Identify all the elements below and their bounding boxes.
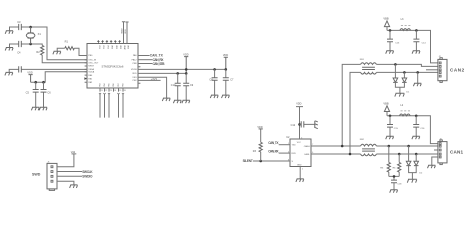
svg-text:R6: R6 — [393, 167, 397, 169]
wire CAN_STB — [138, 63, 152, 65]
mcu top pin names (rotated) — [98, 45, 129, 50]
svg-text:PA0: PA0 — [88, 74, 93, 77]
capacitor C14 — [415, 30, 417, 50]
svg-text:22: 22 — [105, 90, 107, 92]
svg-text:L2: L2 — [400, 104, 403, 107]
ground — [407, 179, 417, 182]
wire SWCLK — [57, 171, 82, 173]
svg-text:+3V3: +3V3 — [151, 77, 158, 81]
node — [394, 63, 397, 66]
capacitor C16 — [415, 116, 417, 136]
resistor R6 — [398, 154, 400, 176]
ground — [386, 136, 394, 139]
resistor R3 — [260, 129, 262, 161]
svg-text:26: 26 — [124, 90, 126, 92]
mcu bottom pin numbers — [101, 90, 126, 92]
node — [403, 71, 406, 74]
node — [389, 115, 392, 118]
svg-text:21: 21 — [101, 90, 103, 92]
svg-text:VDDA: VDDA — [88, 71, 94, 74]
node — [407, 145, 410, 148]
capacitor C5 — [35, 82, 37, 107]
wire SWDIO — [57, 175, 82, 177]
svg-text:PB5: PB5 — [109, 83, 111, 86]
svg-text:VSS: VSS — [132, 77, 137, 79]
svg-text:VSS: VSS — [106, 45, 108, 49]
svg-text:CAN1: CAN1 — [450, 150, 463, 155]
svg-text:PB0: PB0 — [88, 55, 93, 57]
ground (rotated) — [315, 121, 318, 129]
node OSC_IN junction — [29, 26, 32, 29]
capacitor C12 — [300, 123, 315, 125]
svg-text:NRST: NRST — [88, 66, 94, 68]
capacitor C3 — [19, 24, 22, 30]
resistor R2 — [41, 45, 44, 55]
svg-text:PB4: PB4 — [104, 83, 106, 86]
ground — [395, 93, 405, 96]
node — [185, 72, 188, 75]
svg-text:C14: C14 — [422, 42, 427, 44]
tvs diode D2a — [408, 146, 410, 161]
svg-text:VSS: VSS — [98, 45, 100, 49]
ground — [222, 95, 230, 98]
svg-text:R5: R5 — [380, 167, 384, 169]
wire D2 join — [409, 166, 417, 180]
svg-text:C5: C5 — [26, 91, 30, 95]
svg-text:VDD: VDD — [257, 126, 262, 129]
svg-text:VBB: VBB — [383, 16, 388, 20]
svg-text:C10: C10 — [171, 84, 176, 87]
svg-text:2: 2 — [302, 169, 303, 171]
svg-text:X1: X1 — [38, 32, 42, 36]
wire VBAT up — [122, 22, 125, 44]
ground — [53, 51, 61, 54]
capacitor C10 — [177, 73, 179, 100]
svg-text:VDD: VDD — [27, 71, 32, 74]
inductor L2 — [399, 114, 410, 116]
choke FB2 — [361, 144, 377, 155]
svg-text:PB6: PB6 — [113, 83, 115, 86]
wire CAN1 pin3 stub — [434, 149, 438, 151]
wire R1 left to ground — [57, 48, 65, 51]
ground — [296, 179, 304, 182]
ground — [390, 190, 398, 193]
ground — [412, 51, 420, 54]
svg-text:C7: C7 — [230, 78, 234, 81]
wire CANL — [311, 153, 438, 155]
connector J1 pins — [51, 166, 53, 182]
wire PB4 down — [104, 95, 106, 118]
svg-text:VBAT: VBAT — [121, 28, 124, 34]
node — [259, 160, 262, 163]
svg-text:PB2: PB2 — [133, 80, 138, 82]
node — [393, 175, 396, 178]
svg-text:D1: D1 — [406, 92, 410, 94]
wire SWD gnd — [57, 181, 74, 185]
tvs diode D1a — [394, 64, 396, 78]
svg-text:CAN_TX: CAN_TX — [268, 141, 279, 145]
mcu bottom pin stubs — [100, 88, 123, 92]
svg-text:3: 3 — [301, 137, 302, 139]
svg-text:PA12: PA12 — [132, 58, 138, 61]
wire termination join — [389, 176, 399, 180]
node — [42, 81, 45, 84]
svg-text:CAN_TX: CAN_TX — [150, 54, 164, 58]
wire PB5 down — [108, 95, 110, 118]
wire U2 GND — [299, 167, 301, 179]
svg-text:VBB: VBB — [383, 101, 388, 105]
svg-text:SWDIO: SWDIO — [82, 175, 93, 179]
capacitor C15 — [389, 116, 391, 136]
svg-text:U2: U2 — [286, 136, 290, 139]
wire RXD — [279, 152, 290, 154]
mcu left pin stubs — [85, 56, 87, 83]
svg-text:D2: D2 — [419, 173, 423, 175]
wire CANH — [311, 145, 438, 147]
mcu top power pin symbols — [97, 40, 121, 43]
mcu right pin names — [131, 54, 138, 82]
node — [341, 145, 344, 148]
wire +3V3 — [138, 79, 161, 81]
wire VDDA — [9, 69, 87, 72]
wire U2 VCC up — [296, 107, 303, 139]
capacitor C1 — [19, 66, 22, 72]
wire PB3 down — [99, 95, 101, 118]
wire CAN2 pin3 stub — [426, 69, 438, 71]
capacitor C9 — [185, 73, 187, 100]
resistor R1 — [65, 47, 74, 50]
svg-text:25: 25 — [119, 90, 121, 92]
svg-text:C12: C12 — [291, 124, 296, 127]
wire CAN_RX — [138, 59, 152, 61]
svg-text:SILENT: SILENT — [243, 159, 253, 163]
wire TXD — [279, 144, 290, 146]
capacitor C4 — [19, 41, 22, 47]
ground — [412, 136, 420, 139]
node — [185, 68, 188, 71]
svg-text:TXD: TXD — [292, 145, 297, 147]
connector J2 — [438, 59, 447, 80]
crystal X1 — [26, 27, 35, 44]
inductor L3 — [400, 29, 411, 31]
svg-text:R1: R1 — [65, 39, 69, 43]
svg-text:Vdd: Vdd — [71, 151, 76, 154]
svg-text:RXD: RXD — [292, 153, 297, 155]
svg-text:VSS: VSS — [102, 45, 104, 49]
node — [213, 68, 216, 71]
connector J2 tabs — [440, 58, 442, 60]
svg-text:C3: C3 — [17, 20, 21, 24]
ground — [413, 83, 421, 86]
svg-text:VBAT: VBAT — [123, 45, 126, 50]
svg-text:CAN2: CAN2 — [450, 68, 465, 73]
wire S pin — [253, 160, 290, 162]
wire OSC row2 — [10, 44, 88, 63]
wire R1 right to MCU BOOT0 — [74, 48, 87, 55]
node — [415, 115, 418, 118]
svg-text:VDD: VDD — [223, 54, 228, 57]
ground — [31, 107, 39, 110]
svg-text:CANH: CANH — [304, 145, 310, 148]
svg-text:OSC_OUT: OSC_OUT — [88, 63, 99, 65]
svg-text:PB8: PB8 — [133, 63, 138, 65]
svg-text:VDD: VDD — [119, 45, 121, 49]
svg-text:PB7: PB7 — [118, 83, 120, 86]
svg-text:VDD: VDD — [111, 45, 113, 49]
svg-text:CAN_STB: CAN_STB — [153, 62, 166, 66]
svg-text:VCC: VCC — [297, 142, 302, 144]
power VDD — [259, 128, 263, 130]
wire D1 join — [395, 82, 404, 93]
wire VDDIO up — [125, 22, 128, 44]
ground — [162, 98, 170, 101]
svg-text:PA9: PA9 — [133, 54, 138, 57]
node — [415, 29, 418, 32]
svg-text:VDD: VDD — [132, 73, 137, 75]
node — [34, 81, 37, 84]
ground — [5, 72, 13, 75]
resistor R5 — [388, 146, 390, 176]
ground — [39, 107, 47, 110]
svg-text:C6: C6 — [47, 91, 51, 95]
svg-text:S: S — [292, 161, 294, 163]
node — [176, 72, 179, 75]
svg-text:C4: C4 — [17, 51, 21, 55]
power VDD — [224, 57, 228, 69]
connector J3 — [438, 142, 447, 163]
svg-text:FB2: FB2 — [360, 139, 365, 141]
mcu right pin stubs — [138, 67, 140, 83]
wire PB9 down — [122, 95, 124, 118]
connector J1 — [47, 163, 57, 189]
node OSC_OUT junction — [29, 43, 32, 46]
capacitor C18 — [391, 180, 397, 183]
node — [298, 123, 301, 126]
wire PB7 down — [118, 95, 120, 118]
node — [389, 29, 392, 32]
capacitor C8 — [214, 69, 216, 95]
mcu U1 body — [87, 44, 138, 89]
power VDD — [184, 57, 188, 74]
svg-text:23: 23 — [110, 90, 112, 92]
u2 pin names — [292, 145, 297, 163]
transceiver U2 body — [290, 139, 311, 167]
node — [225, 68, 228, 71]
svg-text:CANL: CANL — [304, 153, 310, 156]
wire VBB rail — [387, 27, 438, 63]
wire VDD rail1 — [138, 68, 226, 70]
svg-text:STM32F042C6x6: STM32F042C6x6 — [102, 65, 124, 69]
node — [388, 145, 391, 148]
svg-text:VDD: VDD — [127, 45, 129, 49]
choke FB1 — [361, 63, 377, 74]
node — [415, 153, 418, 156]
capacitor C6 — [43, 82, 45, 107]
svg-text:24: 24 — [114, 90, 116, 92]
wire CANH riser to CAN2 — [342, 64, 360, 146]
svg-text:C9: C9 — [190, 84, 194, 87]
mcu left pin names — [88, 55, 99, 84]
svg-text:R3: R3 — [253, 150, 257, 153]
wire CANH to CAN2 conn — [377, 64, 438, 66]
svg-text:SWD: SWD — [32, 172, 41, 176]
ground — [173, 100, 181, 103]
svg-text:R2: R2 — [36, 50, 40, 54]
wire SWD Vdd — [57, 154, 76, 167]
ground — [70, 185, 78, 188]
capacitor C13 — [389, 30, 391, 50]
node — [416, 71, 419, 74]
svg-text:PA1: PA1 — [88, 77, 93, 80]
svg-text:OSC_IN: OSC_IN — [88, 59, 96, 61]
svg-text:C16: C16 — [420, 128, 425, 130]
svg-text:C13: C13 — [395, 42, 400, 44]
connector J1 bottom tab — [49, 189, 54, 191]
svg-text:C18: C18 — [397, 183, 402, 185]
mcu bottom net arrows — [99, 93, 124, 95]
wire CAN1 pin5 gnd — [432, 157, 438, 165]
tvs diode D1b — [403, 72, 405, 78]
wire VSS to ground — [138, 77, 167, 98]
capacitor C7 — [225, 69, 227, 95]
wire VDD bus — [31, 72, 87, 82]
svg-text:GND: GND — [297, 164, 302, 166]
svg-text:CAN_RX: CAN_RX — [268, 150, 279, 154]
svg-text:SWCLK: SWCLK — [82, 170, 93, 174]
wire OSC row1 — [10, 27, 88, 60]
svg-text:VDD: VDD — [115, 45, 117, 49]
svg-text:PB3: PB3 — [100, 83, 102, 86]
ground — [386, 51, 394, 54]
svg-text:C15: C15 — [394, 128, 399, 130]
wire CAN_TX — [138, 55, 150, 57]
node — [349, 153, 352, 156]
svg-text:PA2: PA2 — [88, 81, 93, 84]
svg-text:VDD: VDD — [183, 53, 188, 56]
ground — [5, 31, 13, 34]
svg-text:VDD: VDD — [296, 102, 301, 105]
wire CAN2 shield gnd — [417, 72, 419, 83]
connector J3 pins — [439, 143, 441, 158]
u2 pin numbers — [288, 137, 313, 170]
ground — [428, 165, 436, 168]
node — [398, 153, 401, 156]
power VDD — [29, 75, 33, 83]
connector J3 tabs — [440, 140, 442, 142]
svg-text:PB9: PB9 — [123, 83, 125, 86]
svg-text:FB1: FB1 — [360, 59, 365, 61]
svg-text:L3: L3 — [401, 18, 404, 21]
wire VDD rail2 — [138, 72, 186, 74]
ground — [182, 100, 190, 103]
ground — [5, 48, 13, 51]
ground — [210, 95, 218, 98]
svg-text:VDDB: VDDB — [131, 69, 137, 71]
mcu left pin arrow — [84, 77, 87, 80]
connector J2 pins — [439, 62, 441, 77]
mcu bottom pin names (rotated) — [100, 83, 125, 86]
svg-text:VDD: VDD — [125, 29, 127, 34]
tvs diode D2b — [415, 154, 417, 161]
wire CANL to CAN2 conn — [377, 71, 438, 73]
wire VBB rail — [387, 112, 438, 144]
wire CANL riser to CAN2 — [350, 72, 361, 154]
